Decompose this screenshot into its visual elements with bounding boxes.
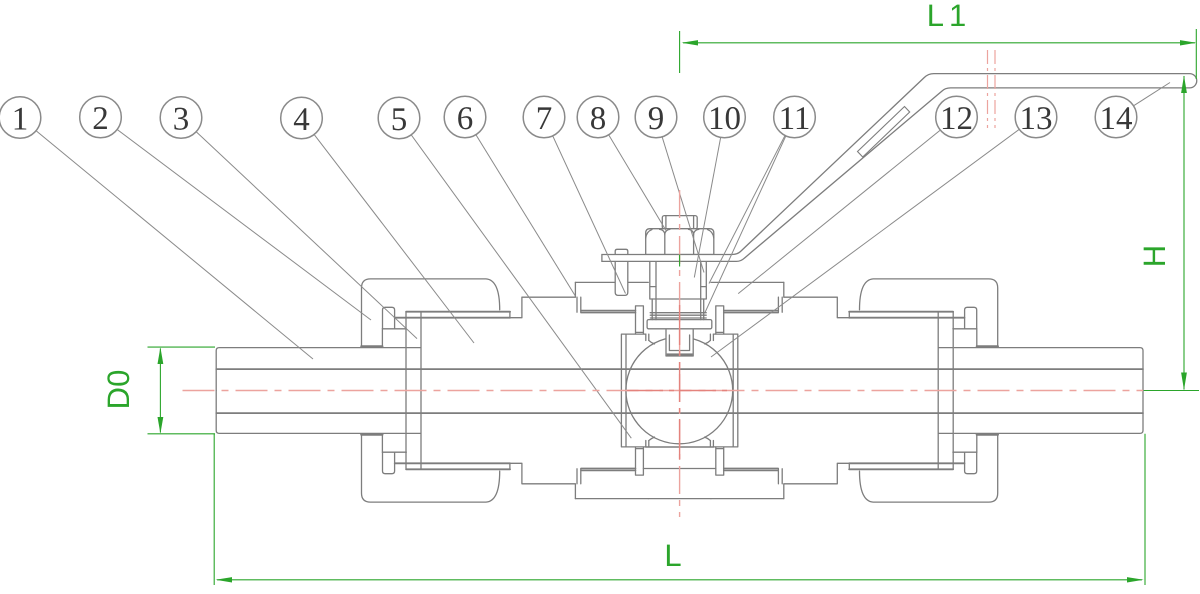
balloon 12 (936, 96, 978, 138)
end cap (adapter) stepped profile (510, 282, 581, 317)
H arrow top (1181, 76, 1187, 94)
dimension L1 extension lines (680, 29, 1197, 267)
leader line 14 (1116, 83, 1170, 118)
balloon 2 (80, 96, 122, 138)
body flange edge (thick) (581, 311, 636, 313)
retaining ring shelf (382, 329, 406, 346)
svg-text:6: 6 (457, 101, 474, 137)
body cavity inner wall (625, 334, 627, 390)
packing gland (650, 261, 707, 299)
leader line 11a (709, 117, 795, 284)
seat ring fillet (649, 340, 655, 344)
pipe bore lines (216, 369, 1143, 413)
nut retaining ring (383, 307, 395, 329)
svg-text:H: H (1137, 245, 1172, 267)
seat ring edges (646, 334, 649, 340)
tailpiece flange strip (406, 312, 421, 391)
stem hex nut (646, 229, 714, 255)
svg-text:8: 8 (590, 101, 607, 137)
body upper-right quadrant (mirror) (705, 279, 1143, 391)
ball (626, 337, 733, 444)
L1 arrow left (682, 40, 699, 45)
horizontal centerline (183, 390, 1144, 392)
svg-text:4: 4 (293, 102, 310, 138)
leader line 6 (465, 117, 576, 296)
leader line 2 (101, 117, 372, 320)
L arrow right (1127, 577, 1144, 582)
balloon 8 (577, 96, 619, 138)
balloon 4 (281, 97, 323, 139)
leader line 9 (656, 117, 704, 273)
L1 arrow right (1180, 40, 1196, 45)
balloon 9 (635, 96, 677, 138)
dimension H line (1183, 76, 1185, 390)
svg-text:7: 7 (536, 101, 553, 137)
body bolt (636, 306, 644, 334)
leader line 11b (705, 117, 795, 313)
leader line 12 (738, 117, 956, 294)
D0 arrow top (158, 347, 164, 364)
bottom plate top edge (643, 468, 715, 470)
svg-text:10: 10 (708, 101, 741, 137)
leader line 5 (399, 118, 631, 438)
leader line 7 (544, 117, 626, 294)
ball center cross horizontal (627, 390, 733, 392)
svg-text:11: 11 (779, 101, 811, 137)
svg-text:2: 2 (92, 101, 109, 137)
dimension H extension line (1144, 390, 1199, 392)
svg-text:13: 13 (1020, 101, 1053, 137)
ball center cross vertical (679, 305, 681, 460)
svg-text:L1: L1 (927, 0, 971, 33)
stem (656, 261, 701, 319)
balloon 7 (523, 96, 565, 138)
svg-text:9: 9 (648, 101, 665, 137)
union nut outer profile (362, 279, 500, 346)
vertical centerline (679, 190, 681, 517)
body cavity bottom line (646, 446, 714, 448)
svg-text:1: 1 (12, 102, 29, 138)
balloon 5 (378, 97, 420, 139)
dimension L1 line (683, 42, 1195, 44)
nut thread lip upper (406, 311, 510, 313)
body top plateau (575, 281, 648, 283)
balloon 14 (1095, 96, 1137, 138)
leader line 10 (694, 117, 724, 278)
leader line 4 (302, 118, 475, 343)
leader line 3 (181, 118, 417, 339)
svg-text:5: 5 (391, 102, 408, 138)
svg-text:3: 3 (173, 102, 190, 138)
H arrow bottom (1181, 373, 1187, 391)
handle hole marks (988, 50, 996, 128)
balloon 10 (704, 96, 746, 138)
svg-text:D0: D0 (101, 370, 136, 410)
packing rings (650, 312, 706, 314)
svg-text:L: L (664, 538, 681, 573)
stem collar (647, 320, 712, 329)
union nut shoulder (thick) (361, 345, 382, 347)
body lower-left quadrant (mirror) (216, 391, 654, 503)
handle stop pin (615, 249, 628, 295)
balloon 13 (1015, 96, 1057, 138)
leader line 13 (711, 117, 1036, 357)
stem square top (662, 216, 697, 229)
handle (plate and lever) (602, 74, 1197, 262)
svg-text:14: 14 (1100, 101, 1133, 137)
balloon 11 (774, 96, 816, 138)
balloon 6 (444, 96, 486, 138)
body lower-right quadrant (mirror) (705, 391, 1143, 503)
D0 arrow bottom (158, 417, 164, 434)
ball slot (stem tang) (666, 329, 693, 356)
leader line 8 (598, 117, 666, 231)
dimension D0 extension lines (148, 347, 216, 434)
pipe (tube) top-left outline (216, 348, 405, 391)
svg-text:12: 12 (940, 101, 973, 137)
leader line 1 (20, 118, 313, 360)
balloon 1 (0, 97, 41, 139)
bottom plate bottom edge (648, 498, 711, 500)
dimension D0 line (159, 349, 161, 433)
handle rib (858, 107, 910, 158)
nut thread lip lower (395, 317, 510, 319)
L arrow left (216, 577, 233, 582)
dimension L extension lines (214, 434, 1145, 585)
dimension L line (217, 579, 1142, 581)
balloon 3 (160, 97, 202, 139)
body cavity corner (621, 334, 645, 390)
